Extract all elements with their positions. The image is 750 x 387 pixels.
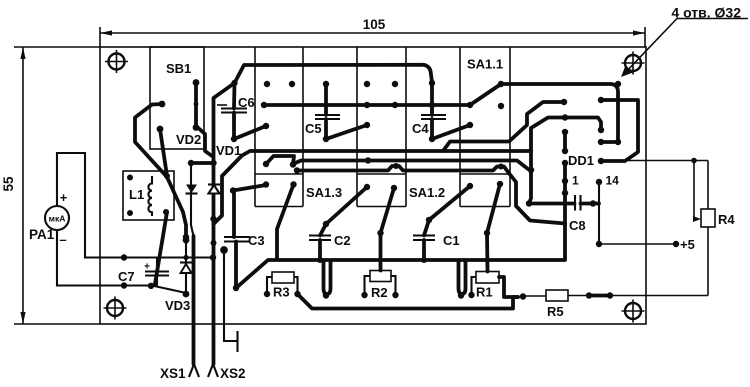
mounting hole bottom-left — [104, 297, 127, 320]
XS1 feed line — [192, 236, 196, 364]
diode VD3 — [180, 237, 192, 298]
inductor L1 — [123, 171, 174, 220]
svg-text:+: + — [60, 190, 68, 205]
svg-text:VD1: VD1 — [216, 143, 241, 158]
capacitor C3 — [224, 185, 266, 291]
resistor R4 (trimmer) — [691, 158, 715, 227]
svg-text:R5: R5 — [547, 304, 564, 319]
XS2 feed line — [211, 83, 235, 364]
diode VD2 (on XS1 branch) — [186, 163, 198, 236]
PA1 minus wire — [57, 230, 184, 293]
dimension 105 (top) — [100, 17, 645, 36]
section dividers — [255, 47, 510, 207]
lower bus trace — [298, 294, 519, 309]
resistor R3 — [264, 272, 301, 297]
svg-text:C2: C2 — [334, 233, 351, 248]
staircase trace B1 (VD1 to DD1 area) — [210, 151, 531, 224]
svg-text:SA1.3: SA1.3 — [306, 185, 342, 200]
resistor R1 — [468, 184, 526, 300]
svg-text:C6: C6 — [238, 95, 255, 110]
svg-text:XS1: XS1 — [160, 366, 186, 381]
svg-text:14: 14 — [606, 174, 620, 188]
staircase trace B3 to bus — [294, 163, 565, 224]
pushbutton SB1 contacts — [157, 79, 200, 132]
PA1 plus wire — [57, 153, 216, 261]
trace SB1 lower pad to L1 — [160, 129, 167, 176]
capacitor C6 with trace to C4 — [217, 65, 435, 142]
svg-text:+: + — [144, 262, 150, 273]
svg-text:R3: R3 — [273, 285, 290, 300]
capacitor C8 — [526, 195, 599, 211]
svg-text:–: – — [59, 232, 66, 247]
svg-text:105: 105 — [363, 17, 386, 32]
wire link pads to XS2 feed — [188, 160, 217, 166]
main bus trace — [236, 260, 564, 288]
svg-text:L1: L1 — [129, 187, 144, 202]
row 3 pads — [263, 181, 503, 188]
svg-text:VD2: VD2 — [176, 132, 201, 147]
svg-text:XS2: XS2 — [220, 366, 246, 381]
svg-text:C7: C7 — [118, 269, 135, 284]
svg-text:C4: C4 — [412, 121, 429, 136]
staircase trace A — [443, 99, 567, 151]
resistor R2 — [361, 271, 398, 299]
svg-text:SA1.2: SA1.2 — [409, 185, 445, 200]
meter PA1 — [45, 190, 69, 247]
capacitor C5 — [315, 84, 370, 142]
label 4 отв. Ø32 with leader arrow — [621, 5, 748, 78]
dimension 55 (left) — [1, 47, 26, 324]
mounting hole bottom-right — [622, 300, 645, 323]
svg-text:SA1.1: SA1.1 — [467, 57, 503, 72]
svg-text:+5: +5 — [680, 237, 695, 252]
wire to R4 — [628, 161, 708, 296]
svg-text:1: 1 — [572, 174, 579, 188]
svg-text:R1: R1 — [476, 285, 493, 300]
capacitor C7 — [144, 258, 169, 286]
svg-text:C8: C8 — [569, 218, 586, 233]
capacitor C4 — [421, 115, 473, 142]
DD1 pin 14 column — [596, 179, 602, 244]
trace L1 to C7 junction — [155, 212, 167, 284]
svg-text:мкА: мкА — [49, 214, 66, 224]
SB1 box — [150, 47, 204, 149]
contact row 1 pads — [264, 81, 398, 87]
common-wire hook — [221, 247, 237, 352]
board outline — [14, 27, 646, 324]
svg-text:R2: R2 — [371, 285, 388, 300]
staircase trace B2 — [263, 156, 528, 169]
svg-text:DD1: DD1 — [568, 153, 594, 168]
capacitor C1 with switch arm — [413, 183, 473, 263]
switch SA1.1 contacts and arm — [467, 81, 504, 109]
svg-text:C3: C3 — [248, 233, 265, 248]
contact row 2 trace — [261, 102, 470, 108]
switch arm B over R2 — [377, 185, 397, 271]
XS1 arrowhead — [189, 364, 199, 377]
trace T1 to top-right corner — [501, 81, 621, 145]
trace SB1 contact to XS2 feed — [196, 126, 212, 156]
svg-text:C5: C5 — [305, 121, 322, 136]
svg-text:PA1: PA1 — [29, 227, 55, 242]
svg-text:55: 55 — [1, 176, 16, 192]
switch arm D — [277, 181, 297, 259]
capacitor C2 with switch arm — [309, 184, 370, 263]
below-bus stub right — [458, 261, 466, 299]
svg-text:C1: C1 — [443, 233, 460, 248]
DD1 pin 1 column — [562, 129, 568, 260]
trace outer bracket to DD1 — [598, 97, 638, 164]
resistor R5 — [523, 290, 708, 301]
trace V531 junction to C8 and up to DD1 — [528, 114, 604, 204]
XS2 arrowhead — [208, 364, 218, 377]
svg-text:R4: R4 — [718, 212, 735, 227]
+5 wire — [596, 241, 679, 247]
below-bus stub left — [323, 261, 331, 299]
trace from SB1 to C7 (left long trace) — [135, 104, 189, 242]
svg-text:VD3: VD3 — [165, 298, 190, 313]
diode VD1 (on XS2 feed) — [208, 185, 220, 194]
mounting hole top-left — [105, 50, 128, 73]
svg-text:SB1: SB1 — [166, 61, 191, 76]
mounting hole top-right — [622, 52, 645, 75]
